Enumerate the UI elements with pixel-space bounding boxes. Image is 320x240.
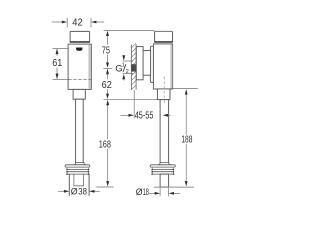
pipe lower right [160, 174, 169, 187]
body side view [153, 44, 172, 89]
svg-text:2: 2 [126, 69, 129, 75]
wall flange [136, 47, 143, 80]
pipe upper [76, 99, 84, 163]
body right shading (right fig) [170, 44, 172, 88]
valve body [68, 44, 91, 89]
pipe upper right [160, 100, 169, 164]
svg-text:42: 42 [72, 17, 83, 28]
svg-text:Ø: Ø [71, 186, 78, 196]
pipe flare right [158, 163, 170, 165]
tick from 75 to cap top [104, 30, 155, 32]
pipe through wall dark [132, 64, 136, 71]
svg-text:18: 18 [143, 187, 149, 198]
wall section with hatching [131, 44, 136, 89]
socket inner bore [74, 174, 84, 186]
escutcheon right top plate [150, 165, 175, 167]
connector block [73, 89, 85, 99]
escutcheon rib sides [67, 167, 89, 174]
escutcheon top plate [65, 165, 90, 167]
cap side view [155, 31, 173, 42]
socket tube sides [68, 174, 70, 196]
svg-text:38: 38 [78, 186, 87, 197]
svg-text:Ø: Ø [136, 187, 143, 197]
svg-text:188: 188 [181, 134, 192, 145]
svg-text:61: 61 [52, 58, 62, 69]
escutcheon right rib sides [152, 167, 174, 174]
connector nut [143, 51, 151, 76]
escutcheon rib lines [67, 169, 89, 174]
outlet centerline [163, 77, 165, 104]
pipe flare [74, 163, 86, 165]
svg-text:168: 168 [99, 139, 112, 150]
boss on body left [150, 46, 153, 82]
push button slot [76, 48, 82, 51]
svg-text:45-55: 45-55 [135, 111, 154, 122]
body right shading [88, 45, 90, 89]
cap dark band right [154, 41, 172, 43]
escutcheon right rib lines [152, 169, 174, 174]
hidden dashed line across body [68, 79, 91, 81]
svg-text:75: 75 [102, 45, 111, 56]
outlet block [157, 89, 170, 100]
cap top housing [70, 31, 90, 42]
cap dark bottom band [70, 41, 90, 43]
svg-text:62: 62 [102, 80, 113, 91]
